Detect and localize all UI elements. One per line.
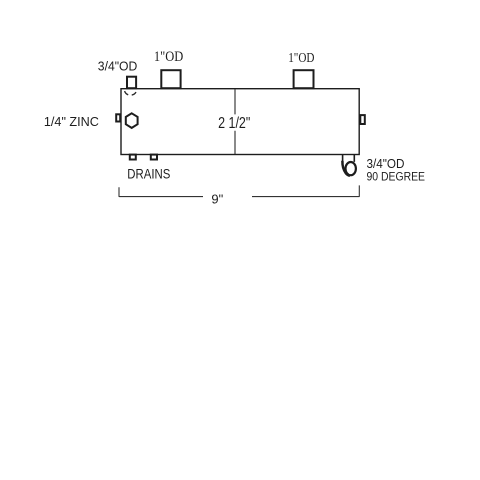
port P1 3/4"OD stub <box>127 77 136 89</box>
svg-text:3/4"OD: 3/4"OD <box>98 60 138 74</box>
svg-text:90 DEGREE: 90 DEGREE <box>367 171 426 183</box>
label 1"OD right <box>288 51 314 66</box>
label 9" <box>211 191 223 206</box>
port P3 1"OD stub right <box>294 70 314 88</box>
90 degree fitting elbow outline <box>342 161 350 176</box>
svg-text:3/4"OD: 3/4"OD <box>367 157 405 171</box>
svg-text:9": 9" <box>211 191 223 206</box>
label 3/4"OD <box>98 60 138 74</box>
label 1"OD left <box>154 49 184 65</box>
svg-text:DRAINS: DRAINS <box>127 165 170 181</box>
zinc anode boss tab left <box>116 114 120 121</box>
label 3/4"OD 90 DEGREE <box>367 157 426 184</box>
drain plug D1 <box>130 155 136 160</box>
svg-text:2 1/2": 2 1/2" <box>218 115 250 132</box>
hidden tube dashed arc <box>124 90 136 96</box>
label 1/4" ZINC <box>44 115 99 129</box>
svg-text:1"OD: 1"OD <box>288 51 314 66</box>
zinc anode hex plug <box>126 113 138 128</box>
label DRAINS <box>127 165 170 181</box>
right side tab <box>360 115 365 124</box>
tank body outline <box>121 89 359 155</box>
90 degree fitting end circle <box>346 162 356 175</box>
90 degree fitting tube lines <box>343 155 355 163</box>
centerline <box>234 89 236 154</box>
svg-text:1/4" ZINC: 1/4" ZINC <box>44 115 99 129</box>
drain plug D2 <box>151 155 157 160</box>
svg-text:1"OD: 1"OD <box>154 49 184 65</box>
dimension line 9" with end ticks <box>119 185 359 197</box>
dimension text 2 1/2" <box>218 115 250 132</box>
port P2 1"OD stub left <box>161 70 180 88</box>
